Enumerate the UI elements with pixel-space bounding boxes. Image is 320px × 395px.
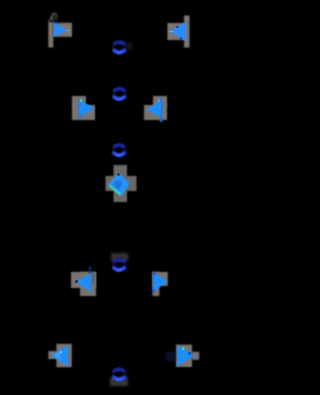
ring N3 xyxy=(113,144,125,156)
ring N1 xyxy=(113,41,132,53)
ring N2 xyxy=(113,88,125,100)
gem diamond with plus pedestal xyxy=(106,165,137,202)
flag F5 (lower-left, points left) xyxy=(71,266,96,296)
bird cursor icon xyxy=(49,12,59,21)
flag F8 (bottom-right, points right) xyxy=(166,345,199,367)
ring N6 xyxy=(110,368,128,386)
flag F7 (bottom-left, points left) xyxy=(48,344,71,367)
flag F4 (mid-right, points left) xyxy=(144,96,167,122)
flag F3 (mid-left, points right) xyxy=(72,96,95,120)
flag F6 (lower-right, points right) xyxy=(152,272,168,296)
ring N4 xyxy=(111,253,128,271)
flag F2 (top-right, points left) xyxy=(167,16,189,48)
flag F1 (top-left, points right) xyxy=(48,20,72,48)
